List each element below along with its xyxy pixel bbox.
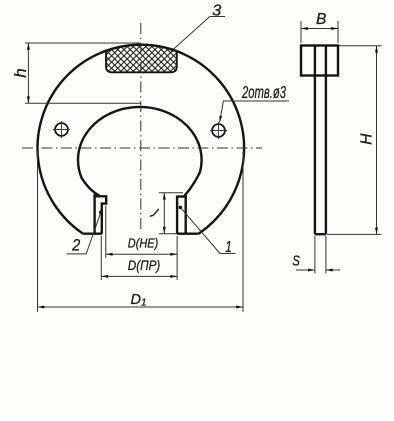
dimension D(HE) — [106, 206, 177, 281]
dimension H — [327, 46, 382, 235]
hole left (2 otv. d3) — [55, 123, 68, 136]
side view stem — [315, 46, 326, 235]
centerline horizontal — [22, 147, 262, 149]
svg-text:S: S — [292, 253, 300, 270]
outer circle (body of gauge, bottom cut flat) — [37, 45, 244, 234]
label/leader 2otv.d3 — [220, 101, 289, 123]
svg-text:B: B — [316, 11, 326, 28]
dimension h — [25, 43, 141, 103]
svg-text:D(ПР): D(ПР) — [128, 257, 161, 273]
wire bottom edge left segment — [83, 232, 102, 234]
dimension S — [296, 236, 340, 274]
dimension B — [301, 21, 338, 43]
svg-text:D(HE): D(HE) — [128, 236, 159, 250]
label 2 with leader — [99, 211, 103, 215]
side view head — [301, 46, 338, 76]
svg-text:2отв.ø3: 2отв.ø3 — [241, 82, 286, 102]
svg-text:H: H — [359, 133, 376, 145]
insert 3 (hatched top insert) — [106, 45, 177, 73]
svg-text:D1: D1 — [131, 292, 147, 309]
wire bottom edge right segment — [177, 232, 198, 234]
insert 2 (left measuring insert with step) — [95, 196, 107, 233]
hole right (2 otv. d3) — [212, 124, 225, 137]
svg-text:2: 2 — [71, 237, 80, 255]
svg-text:1: 1 — [225, 239, 232, 256]
label 3 with leader — [173, 17, 225, 50]
dimension l — [159, 193, 183, 234]
insert 1 (right measuring insert) — [177, 197, 186, 234]
node left slot wall — [93, 194, 95, 234]
label l (script ell) — [150, 209, 159, 216]
dimension D(PR) — [101, 236, 177, 280]
svg-text:3: 3 — [212, 2, 222, 19]
dimension D1 — [38, 150, 244, 312]
centerline vertical — [140, 23, 142, 232]
label 1 with leader — [179, 206, 183, 210]
svg-text:h: h — [11, 68, 30, 77]
inner ellipse hole — [78, 107, 202, 197]
